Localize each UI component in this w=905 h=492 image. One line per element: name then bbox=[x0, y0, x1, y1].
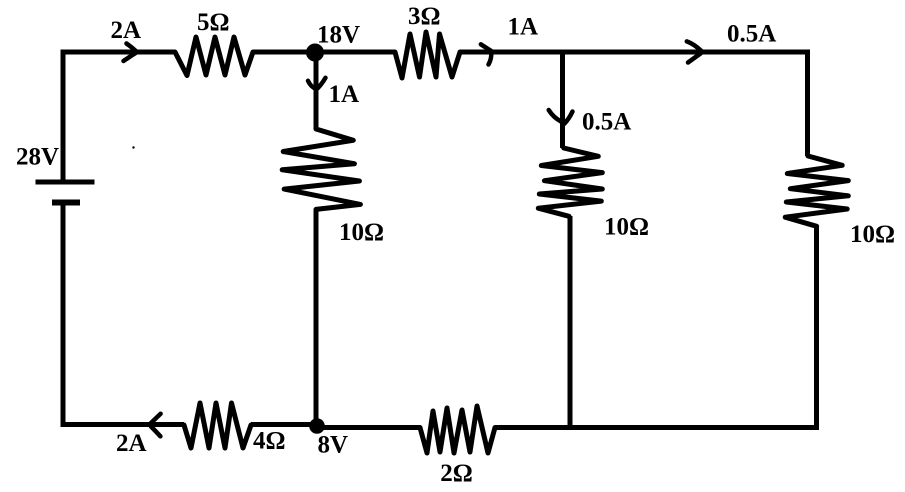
svg-text:0.5A: 0.5A bbox=[582, 109, 631, 136]
svg-text:2Ω: 2Ω bbox=[440, 460, 473, 487]
svg-text:28V: 28V bbox=[16, 143, 59, 170]
svg-text:1A: 1A bbox=[329, 81, 360, 108]
svg-text:10Ω: 10Ω bbox=[339, 219, 384, 246]
svg-text:1A: 1A bbox=[508, 13, 539, 40]
svg-text:18V: 18V bbox=[317, 21, 360, 48]
svg-text:3Ω: 3Ω bbox=[408, 3, 441, 30]
svg-text:4Ω: 4Ω bbox=[253, 428, 286, 455]
svg-text:2A: 2A bbox=[111, 17, 142, 44]
svg-text:10Ω: 10Ω bbox=[604, 214, 649, 241]
svg-text:0.5A: 0.5A bbox=[727, 21, 776, 48]
svg-text:2A: 2A bbox=[116, 430, 147, 457]
svg-text:8V: 8V bbox=[318, 432, 349, 459]
svg-text:5Ω: 5Ω bbox=[197, 9, 230, 36]
svg-text:10Ω: 10Ω bbox=[850, 221, 895, 248]
